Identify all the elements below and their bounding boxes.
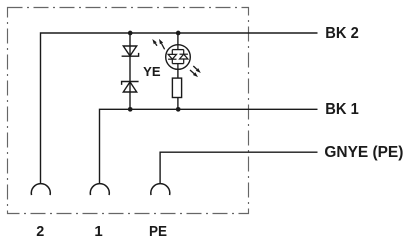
svg-text:BK 1: BK 1 — [325, 101, 359, 118]
svg-text:PE: PE — [149, 223, 167, 240]
svg-text:2: 2 — [36, 223, 44, 240]
svg-text:1: 1 — [94, 223, 102, 240]
svg-text:YE: YE — [143, 64, 161, 79]
svg-text:BK 2: BK 2 — [325, 25, 359, 42]
svg-text:GNYE (PE): GNYE (PE) — [324, 144, 403, 161]
